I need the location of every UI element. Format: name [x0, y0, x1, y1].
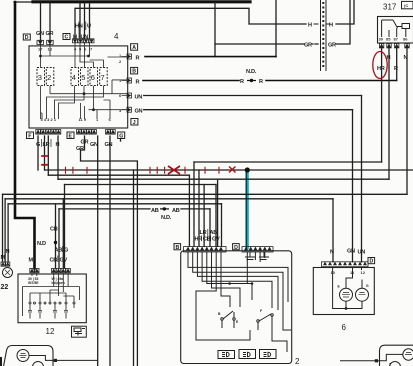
middle lamp switch unit box 2	[181, 251, 292, 364]
red x small	[229, 167, 236, 173]
svg-text:N.D.: N.D.	[246, 69, 257, 75]
right connector of unit 2 label D	[233, 244, 240, 251]
svg-text:D: D	[370, 259, 374, 265]
lamp G comp6	[356, 288, 369, 301]
wire CB drop to lamp switch	[203, 185, 205, 247]
connector A pin	[122, 54, 132, 59]
wire GN drop to comp6	[352, 110, 354, 262]
wire UN right	[144, 95, 362, 97]
connector B pin	[122, 78, 132, 83]
svg-text:INT/5E: INT/5E	[28, 281, 39, 285]
wire GR right loop	[214, 3, 216, 57]
connector G pins	[106, 130, 116, 135]
svg-text:N.D.: N.D.	[161, 215, 172, 221]
svg-text:12: 12	[46, 327, 55, 336]
ladder connector strip	[321, 0, 327, 71]
wire N left end drop	[2, 194, 4, 262]
svg-text:A: A	[132, 45, 136, 51]
wire R1 thick	[145, 56, 276, 58]
svg-text:(C: (C	[404, 3, 408, 8]
connector D label	[23, 31, 53, 41]
svg-text:7: 7	[101, 73, 105, 82]
wire UN drop to comp6	[361, 96, 363, 262]
switch contact 4	[71, 68, 79, 86]
lamp1 bottom left	[17, 350, 29, 362]
svg-text:GR: GR	[81, 140, 89, 146]
svg-text:F: F	[260, 309, 262, 313]
connector C label	[63, 22, 91, 41]
wire N tap to comp6	[332, 199, 334, 262]
wire GV drop to lamp switch	[215, 185, 217, 247]
left connector of unit 2 label B	[174, 244, 181, 251]
junction teal top	[245, 167, 250, 172]
svg-text:M: M	[29, 258, 34, 264]
lamp cluster bottom left	[4, 346, 53, 366]
pin UN right	[122, 93, 132, 98]
svg-text:G: G	[64, 248, 68, 254]
wire drop to lamp switch x217	[217, 179, 219, 246]
switch contact 7	[100, 68, 108, 86]
lamp cluster bottom right	[380, 345, 413, 366]
left edge dark sliver	[0, 357, 2, 366]
wire red-marked LR main	[45, 169, 413, 171]
svg-text:N: N	[404, 55, 408, 61]
svg-text:GN: GN	[36, 31, 44, 37]
wire GN drop from E x97	[97, 136, 99, 366]
component 12 box	[18, 274, 86, 323]
wire busbar 30 top thick	[14, 1, 33, 3]
svg-text:H: H	[329, 23, 333, 29]
wire drop to lamp switch x221	[221, 204, 223, 246]
wire left drop x5	[4, 199, 6, 262]
lamp2 bottom right partial	[390, 362, 401, 366]
svg-text:GR: GR	[76, 146, 84, 152]
lamp2 bottom left partial	[33, 362, 44, 366]
wire HR from relay	[381, 47, 383, 162]
connector B label	[131, 67, 138, 74]
svg-text:30: 30	[379, 37, 384, 42]
switch contact 3	[37, 68, 45, 86]
relay 317 box	[378, 17, 413, 44]
svg-text:86: 86	[403, 37, 408, 42]
svg-text:GV: GV	[212, 237, 220, 243]
svg-text:AB: AB	[210, 230, 218, 236]
pin GN right	[122, 107, 132, 112]
connector N.D. on R2	[240, 69, 263, 85]
wire AB	[59, 208, 150, 210]
node teal junction wire	[246, 170, 249, 248]
component 6 box	[313, 268, 374, 315]
wire GN right	[144, 109, 353, 111]
wire N from relay	[406, 47, 408, 194]
svg-text:AB: AB	[172, 208, 180, 214]
wire CB drop from y204	[55, 204, 57, 268]
wire C group from busbar	[79, 3, 81, 38]
wire drop x133	[133, 170, 135, 366]
cluster wires bottom right	[340, 354, 403, 366]
svg-text:N: N	[6, 249, 10, 255]
cluster wires bottom left	[29, 356, 98, 361]
component 6 connector strip	[322, 262, 369, 267]
svg-text:M: M	[1, 255, 6, 261]
wire H drop from F	[57, 136, 59, 179]
svg-text:6: 6	[91, 73, 95, 82]
svg-text:317: 317	[383, 3, 397, 12]
svg-text:11 9: 11 9	[79, 117, 87, 122]
wire F pin drop x48	[47, 136, 49, 175]
svg-text:G: G	[366, 284, 369, 288]
svg-text:R: R	[259, 79, 263, 85]
svg-text:H: H	[56, 142, 60, 148]
wire R from relay	[396, 47, 398, 81]
svg-text:GN: GN	[105, 142, 113, 148]
interior routing	[188, 252, 288, 302]
comp6 internal wiring	[333, 267, 362, 309]
svg-text:N.D: N.D	[37, 241, 46, 247]
capacitor symbols top right	[245, 252, 255, 260]
svg-text:4: 4	[72, 73, 76, 82]
connector D label comp6	[368, 258, 375, 265]
connector A label	[131, 44, 138, 51]
svg-text:CB: CB	[203, 237, 211, 243]
svg-text:G: G	[119, 133, 123, 139]
svg-text:GR: GR	[304, 43, 312, 49]
connector C pins	[73, 39, 95, 43]
wire GR from busbar to D connector	[49, 3, 51, 40]
unit 2 internals	[188, 252, 291, 352]
svg-text:6: 6	[342, 323, 347, 332]
comp22 pins	[1, 262, 10, 266]
svg-text:2: 2	[47, 73, 51, 82]
wire G-box pin stub	[120, 136, 122, 141]
svg-text:B: B	[132, 69, 136, 75]
connector G label	[118, 132, 125, 139]
relay internals	[382, 20, 410, 37]
svg-text:HR: HR	[195, 237, 203, 243]
svg-text:D: D	[234, 245, 238, 251]
wire G drop to comp12	[64, 185, 66, 269]
red marks group	[41, 156, 219, 174]
svg-text:GN: GN	[347, 249, 355, 255]
wire drop to lamp switch x189	[188, 175, 190, 246]
svg-text:UN: UN	[358, 250, 366, 256]
switch contact 5	[81, 68, 89, 86]
wire R2 thick to relay	[143, 80, 239, 82]
svg-text:N: N	[330, 250, 334, 256]
svg-text:5 4 3 2 1: 5 4 3 2 1	[41, 117, 57, 122]
left connector pins of unit 2	[184, 247, 227, 252]
comp22 motor symbol	[3, 268, 13, 278]
svg-text:R: R	[240, 79, 244, 85]
svg-text:D: D	[25, 35, 29, 41]
headlight icon box 2	[239, 350, 256, 359]
connector E pins	[77, 130, 97, 135]
svg-text:HR: HR	[377, 66, 385, 72]
svg-text:G: G	[36, 142, 40, 148]
wire N full width	[3, 193, 408, 195]
connector N.D. on CB left	[37, 241, 57, 247]
connector J label	[131, 119, 138, 126]
svg-text:U: U	[87, 24, 91, 30]
wire AB drop to lamp switch	[209, 209, 211, 246]
svg-text:B: B	[176, 245, 180, 251]
wire left border thick M	[15, 2, 35, 269]
wire left drop x8	[7, 204, 9, 262]
right connector pins of unit 2	[242, 247, 273, 252]
red ellipse highlight	[373, 52, 387, 79]
wire H from relay	[388, 47, 390, 179]
svg-text:2: 2	[295, 357, 300, 366]
svg-text:AB: AB	[55, 248, 63, 254]
wire AB left drop	[58, 209, 60, 268]
svg-text:GN: GN	[135, 109, 143, 115]
svg-text:3: 3	[38, 73, 42, 82]
headlight icon box 3	[260, 350, 277, 359]
switch contact 2	[46, 68, 54, 86]
svg-text:CB: CB	[50, 227, 58, 233]
svg-text:R: R	[136, 56, 140, 62]
svg-text:J: J	[133, 120, 136, 126]
svg-text:LR: LR	[200, 230, 207, 236]
svg-text:87: 87	[394, 37, 399, 42]
svg-text:4: 4	[114, 32, 119, 41]
relay top-right box	[402, 1, 413, 8]
lamp1 bottom right	[403, 349, 413, 360]
switch contacts	[222, 311, 234, 328]
wire G drop from F	[37, 136, 39, 170]
wire HR horizontal	[194, 161, 382, 163]
wire GR staircase from E	[81, 136, 138, 366]
component 4 box	[29, 46, 128, 128]
wire R1 to top edge	[275, 0, 277, 57]
svg-text:F: F	[28, 133, 31, 139]
connector F pins	[36, 130, 61, 135]
comp12 icon box	[72, 326, 87, 337]
svg-text:GR: GR	[328, 43, 336, 49]
svg-text:10: 10	[331, 270, 336, 275]
wire GV left drop	[62, 199, 64, 268]
wire black hug at teal	[245, 170, 247, 248]
lamp E comp6	[340, 288, 353, 301]
connector E label	[67, 132, 74, 139]
svg-text:22: 22	[1, 284, 9, 291]
comp12 connector pins	[30, 268, 71, 272]
headlight icon box 1	[218, 351, 235, 359]
wire LR drop to lamp switch	[198, 170, 200, 246]
svg-text:C: C	[65, 35, 69, 41]
wire y184	[65, 184, 217, 186]
svg-text:CB: CB	[50, 258, 58, 264]
red X big	[168, 166, 180, 174]
switch contact 6	[90, 68, 98, 86]
wire GN2 long drop	[109, 136, 111, 366]
svg-text:R: R	[136, 80, 140, 86]
connector D pins	[37, 40, 53, 44]
svg-text:GR: GR	[46, 31, 54, 37]
svg-text:85: 85	[386, 37, 391, 42]
wire HR drop to lamp switch	[193, 162, 195, 246]
wire y197	[5, 198, 333, 200]
wire H horizontal	[58, 178, 389, 180]
svg-text:LR: LR	[43, 142, 50, 148]
comp12 internals	[23, 273, 80, 319]
box4 internal wiring	[41, 42, 127, 119]
svg-text:E: E	[69, 133, 73, 139]
svg-text:UN: UN	[135, 95, 143, 101]
svg-text:R: R	[394, 66, 398, 72]
wire y204	[8, 203, 221, 205]
svg-text:AB: AB	[151, 208, 159, 214]
connector N.D. on AB	[151, 207, 180, 221]
relay pins below	[379, 44, 409, 48]
svg-text:12: 12	[361, 270, 366, 275]
svg-text:H: H	[308, 23, 312, 29]
svg-text:5: 5	[81, 73, 85, 82]
wire GN from busbar to D connector	[40, 3, 42, 40]
wire H long loop to C pin	[75, 8, 306, 38]
svg-text:GV: GV	[60, 258, 68, 264]
svg-text:GN: GN	[90, 142, 98, 148]
wire y174	[48, 174, 189, 176]
connector F label	[27, 132, 34, 139]
wire LR drop from F	[44, 136, 46, 170]
